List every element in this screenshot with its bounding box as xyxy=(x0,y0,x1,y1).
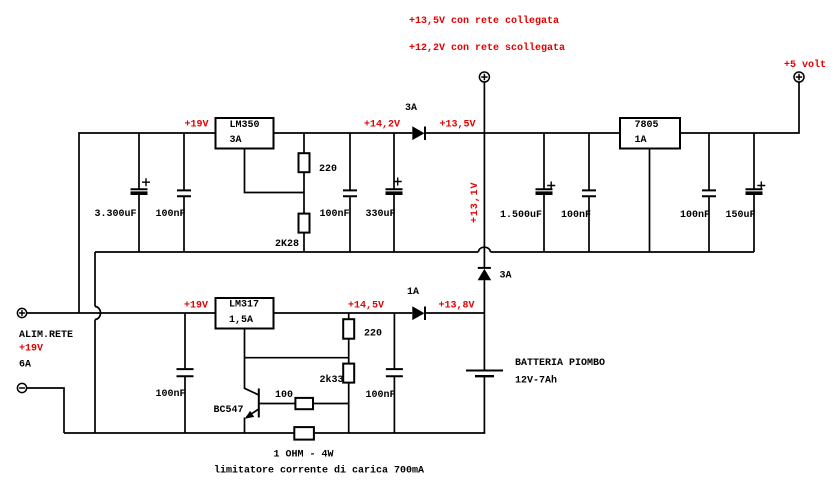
svg-text:1,5A: 1,5A xyxy=(229,315,253,326)
wire: battery positive rail riser (terminal to top bus) xyxy=(483,82,485,133)
resistor 100 (base) xyxy=(259,390,349,409)
wire: mid bus left drop to bottom ground (with hop over +19V wire) xyxy=(95,252,101,433)
battery BATTERIA PIOMBO 12V-7Ah xyxy=(466,358,605,433)
svg-text:BC547: BC547 xyxy=(214,405,244,416)
terminal: ALIM.RETE positive xyxy=(17,308,73,370)
svg-text:100nF: 100nF xyxy=(680,210,710,221)
svg-text:+19V: +19V xyxy=(184,301,208,312)
svg-text:3.300uF: 3.300uF xyxy=(95,209,137,220)
svg-text:limitatore corrente di carica: limitatore corrente di carica 700mA xyxy=(214,465,424,477)
resistor 1 OHM - 4W (charge current sense) xyxy=(274,427,334,460)
wire: LM317 adjust pin down and to divider xyxy=(245,329,349,358)
resistor 220 (LM350 program) xyxy=(299,133,338,214)
svg-text:BATTERIA PIOMBO: BATTERIA PIOMBO xyxy=(515,358,605,369)
svg-text:1.500uF: 1.500uF xyxy=(500,210,542,221)
wire: LM350 adjust pin to divider xyxy=(245,149,305,193)
wire: LM317 output to diode D2 xyxy=(273,312,412,314)
svg-text:3A: 3A xyxy=(500,271,512,282)
resistor 2k33 xyxy=(320,364,355,433)
wire: top bus D1 cathode to 7805 input xyxy=(426,132,621,134)
svg-text:100nF: 100nF xyxy=(366,390,396,401)
svg-text:LM317: LM317 xyxy=(229,300,259,311)
wire: ground mid bus (left of battery rail hop) xyxy=(95,251,478,253)
svg-text:220: 220 xyxy=(319,164,337,175)
regulator U3 LM317 xyxy=(216,298,274,329)
svg-text:ALIM.RETE: ALIM.RETE xyxy=(19,330,73,341)
svg-text:1A: 1A xyxy=(635,135,647,146)
regulator U1 LM350 xyxy=(216,118,274,149)
svg-text:100nF: 100nF xyxy=(561,210,591,221)
svg-text:3A: 3A xyxy=(230,135,242,146)
diode D2 1A (LM317 output) xyxy=(407,287,425,320)
svg-text:+13,5V: +13,5V xyxy=(440,120,476,131)
capacitor 150uF electrolytic xyxy=(726,133,766,252)
wire: battery rail +13,5V node down to diode D3 xyxy=(483,133,485,268)
wire: bottom ground bus (left of 1 ohm) xyxy=(64,432,294,434)
wire: negative terminal to bottom ground bus xyxy=(27,388,64,433)
capacitor 100nF (LM317 output ceramic) xyxy=(366,313,403,433)
svg-text:+13,1V: +13,1V xyxy=(470,182,481,223)
resistor 220 (LM317 program) xyxy=(343,313,382,364)
capacitor 3.300uF input electrolytic xyxy=(95,133,151,252)
terminal: ALIM.RETE negative xyxy=(17,383,26,392)
capacitor 100nF (LM350 output ceramic) xyxy=(320,133,358,252)
wire: D2 cathode to battery rail +13,8V node xyxy=(426,312,485,314)
svg-text:+19V: +19V xyxy=(185,120,209,131)
wire: +19V top bus from left riser to LM350 input xyxy=(79,133,215,313)
svg-text:3A: 3A xyxy=(405,103,417,114)
terminal: +13,5V battery bus output xyxy=(479,72,489,82)
svg-text:+13,8V: +13,8V xyxy=(439,301,475,312)
regulator U2 7805 xyxy=(620,118,680,149)
resistor 2K28 xyxy=(275,214,310,252)
wire: top bus LM350 output to diode D1 xyxy=(273,132,412,134)
wire: bottom ground bus (right of 1 ohm) to battery negative xyxy=(314,432,485,433)
svg-text:7805: 7805 xyxy=(635,120,659,131)
svg-text:100nF: 100nF xyxy=(156,209,186,220)
terminal: +5 volt output xyxy=(784,59,826,82)
svg-text:+14,5V: +14,5V xyxy=(348,301,384,312)
svg-text:220: 220 xyxy=(364,329,382,340)
wire: ground mid bus (right of hop) xyxy=(490,251,754,253)
wire: hop of mid bus over battery rail xyxy=(478,247,490,252)
wire: top bus 7805 output to +5V riser xyxy=(680,82,799,133)
svg-text:1 OHM - 4W: 1 OHM - 4W xyxy=(274,450,334,461)
capacitor 100nF (LM350 input ceramic) xyxy=(156,133,192,252)
diode D1 3A (LM350 output) xyxy=(405,103,425,140)
svg-text:12V-7Ah: 12V-7Ah xyxy=(515,375,557,387)
capacitor 100nF (7805 output ceramic) xyxy=(680,133,716,252)
capacitor 100nF (7805 input ceramic) xyxy=(561,133,596,252)
wire: diode D3 anode down to +13,8V node and battery xyxy=(483,280,485,370)
transistor Q1 BC547 xyxy=(214,358,259,433)
svg-text:+12,2V con rete scollegata: +12,2V con rete scollegata xyxy=(409,42,565,54)
svg-text:2K28: 2K28 xyxy=(275,239,299,250)
svg-text:+13,5V con rete collegata: +13,5V con rete collegata xyxy=(409,15,559,27)
wire: 7805 ground pin xyxy=(649,149,651,253)
svg-text:100nF: 100nF xyxy=(156,389,186,400)
svg-text:+19V: +19V xyxy=(19,344,43,355)
capacitor 1.500uF electrolytic xyxy=(500,133,555,252)
capacitor 330uF electrolytic xyxy=(366,133,403,252)
svg-text:6A: 6A xyxy=(19,360,31,371)
capacitor 100nF (LM317 input ceramic) xyxy=(156,313,194,433)
svg-text:100: 100 xyxy=(275,390,293,401)
diode D3 3A (battery to bus, pointing up) xyxy=(478,268,512,282)
svg-text:LM350: LM350 xyxy=(230,120,260,131)
svg-text:100nF: 100nF xyxy=(320,209,350,220)
wire: +19V feed to LM317 input xyxy=(27,312,215,314)
svg-text:330uF: 330uF xyxy=(366,209,396,220)
svg-text:150uF: 150uF xyxy=(726,210,756,221)
svg-text:+5 volt: +5 volt xyxy=(784,59,826,71)
svg-text:+14,2V: +14,2V xyxy=(364,120,400,131)
svg-text:2k33: 2k33 xyxy=(320,374,344,386)
svg-text:1A: 1A xyxy=(407,287,419,298)
